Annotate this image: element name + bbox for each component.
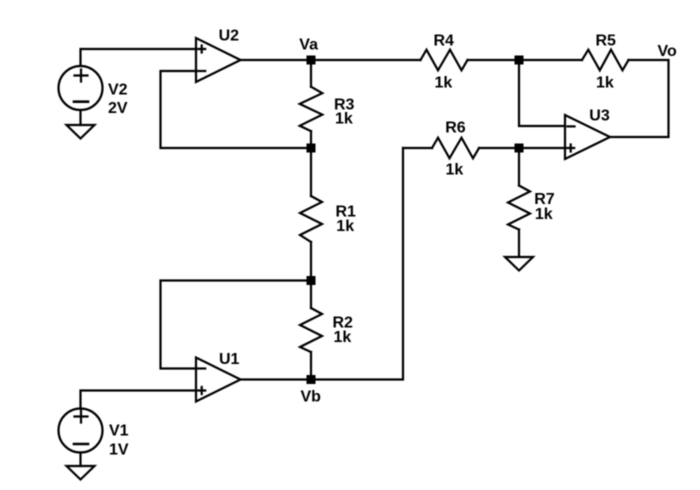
svg-text:U3: U3	[589, 107, 610, 124]
svg-text:1k: 1k	[435, 74, 453, 91]
svg-text:U2: U2	[219, 28, 240, 45]
svg-text:1k: 1k	[596, 74, 614, 91]
svg-text:1k: 1k	[535, 206, 553, 223]
svg-text:1V: 1V	[109, 442, 129, 459]
svg-text:1k: 1k	[446, 161, 464, 178]
svg-text:Vb: Vb	[301, 389, 322, 406]
svg-text:Va: Va	[299, 36, 318, 53]
svg-text:1k: 1k	[335, 111, 353, 128]
svg-text:R4: R4	[434, 32, 455, 49]
svg-text:V2: V2	[108, 82, 128, 99]
svg-text:1k: 1k	[334, 329, 352, 346]
svg-text:U1: U1	[219, 351, 240, 368]
svg-text:V1: V1	[109, 423, 129, 440]
svg-text:2V: 2V	[108, 100, 128, 117]
svg-text:R5: R5	[596, 32, 617, 49]
svg-text:R6: R6	[445, 120, 466, 137]
svg-text:1k: 1k	[336, 218, 354, 235]
svg-text:Vo: Vo	[658, 43, 677, 60]
